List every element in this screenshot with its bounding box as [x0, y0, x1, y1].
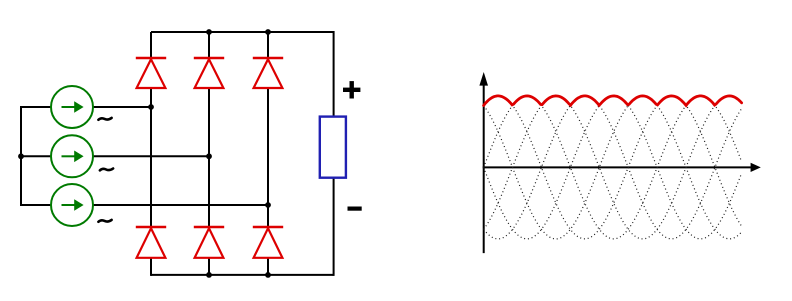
wave phase 300 deg (dotted) [484, 96, 742, 239]
wire bottom DC- bus [151, 274, 334, 276]
wire bridge leg 2 middle [208, 88, 210, 227]
label - [348, 207, 362, 211]
label ~ for source V3 [98, 220, 111, 222]
label + [343, 81, 360, 98]
wire bridge leg 2 lower [208, 258, 210, 276]
wire bridge leg 1 upper [150, 32, 152, 58]
node phase 1 / leg 1 [148, 104, 154, 110]
ac source V3 [51, 184, 93, 226]
diode D3 [253, 58, 283, 88]
wave phase 120 deg (dotted) [484, 96, 742, 239]
diode D1 [136, 58, 166, 88]
diode D6 [253, 227, 283, 258]
wire phase 3 from source to bridge [93, 204, 268, 206]
wave phase 180 deg (dotted) [484, 96, 742, 239]
node neutral bus / phase 2 [18, 153, 24, 159]
wave phase 60 deg (dotted) [484, 96, 742, 239]
wire top DC+ bus [151, 31, 334, 33]
wave rectified output envelope [484, 96, 742, 106]
node top bus / leg 2 [206, 29, 212, 35]
wire bridge leg 1 middle [150, 88, 152, 227]
node phase 2 / leg 2 [206, 153, 212, 159]
wire phase 2 left lead [20, 155, 51, 157]
diode D5 [194, 227, 224, 258]
graph horizontal axis [483, 163, 761, 172]
wire right positive lead to load [333, 31, 335, 117]
wire bridge leg 3 middle [267, 88, 269, 227]
wave phase 0 deg (dotted) [484, 96, 742, 239]
wire phase 3 left lead [20, 204, 51, 206]
wave phase 240 deg (dotted) [484, 96, 742, 239]
label ~ for source V1 [98, 118, 111, 120]
node bottom bus / leg 3 [265, 272, 271, 278]
wire bridge leg 3 upper [267, 31, 269, 58]
wire negative lead from load [333, 178, 335, 276]
ac source V1 [51, 86, 93, 128]
wire phase 1 from source to bridge [93, 106, 151, 108]
wire phase 1 left lead [20, 106, 51, 108]
label ~ for source V2 [100, 169, 113, 171]
wire bridge leg 2 upper [208, 31, 210, 58]
resistor R load [320, 117, 346, 178]
node top bus / leg 3 [265, 29, 271, 35]
wire phase 2 from source to bridge [93, 155, 209, 157]
diode D2 [194, 58, 224, 88]
wire bridge leg 1 lower [150, 258, 152, 276]
node bottom bus / leg 2 [206, 272, 212, 278]
graph vertical axis [479, 72, 488, 253]
ac source V2 [51, 135, 93, 177]
node phase 3 / leg 3 [265, 202, 271, 208]
diode D4 [136, 227, 166, 258]
wire left neutral bus [20, 107, 22, 205]
wire bridge leg 3 lower [267, 258, 269, 276]
